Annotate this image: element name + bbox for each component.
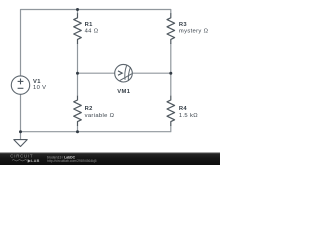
- svg-text:mystery Ω: mystery Ω: [179, 28, 209, 34]
- svg-text:V1: V1: [33, 79, 41, 85]
- svg-text:CIRCUIT: CIRCUIT: [10, 154, 33, 159]
- ground: [14, 140, 27, 147]
- svg-text:R2: R2: [85, 106, 93, 112]
- svg-text:10 V: 10 V: [33, 85, 46, 91]
- svg-text:▶LAB: ▶LAB: [27, 159, 40, 163]
- resistor R1: [74, 13, 82, 44]
- node dot: bottom R2 junction: [76, 130, 79, 133]
- resistor R3: [167, 13, 175, 44]
- node dot: bottom left junction: [19, 130, 22, 133]
- node dot: middle left junction: [76, 72, 79, 75]
- wire voltmeter right: [132, 72, 171, 74]
- node dot: middle right junction: [169, 72, 172, 75]
- wire bottom horizontal: [21, 126, 171, 132]
- svg-text:http://circuitlab.com/29894564: http://circuitlab.com/29894564kj5: [47, 159, 97, 163]
- resistor R4: [167, 96, 175, 126]
- watermark logo wave: [12, 160, 27, 162]
- voltage source V1: [11, 76, 29, 94]
- wire bottom rail: [20, 94, 22, 140]
- wire right branch middle: [170, 44, 172, 97]
- svg-text:R1: R1: [85, 22, 94, 28]
- svg-text:R3: R3: [179, 22, 188, 28]
- wire voltmeter left: [78, 72, 115, 74]
- svg-text:R4: R4: [179, 106, 188, 112]
- wire top rail: [21, 10, 171, 76]
- svg-text:1.5 kΩ: 1.5 kΩ: [179, 113, 198, 119]
- svg-text:44 Ω: 44 Ω: [85, 29, 99, 35]
- voltmeter VM1: [115, 64, 133, 82]
- wire R1 top lead connection: [77, 10, 79, 15]
- wire middle left (R1 bottom to node B): [77, 44, 79, 97]
- svg-text:variable Ω: variable Ω: [85, 113, 115, 119]
- node dot: top R1 junction: [76, 8, 79, 11]
- wire R2 bottom lead: [77, 126, 79, 132]
- resistor R2: [74, 96, 82, 126]
- svg-text:VM1: VM1: [117, 89, 130, 95]
